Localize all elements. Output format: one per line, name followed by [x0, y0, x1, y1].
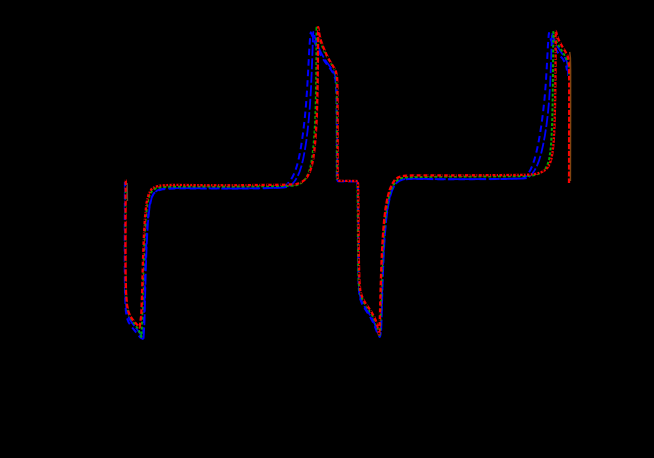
- artifact brown strand right of final fall: [569, 52, 572, 181]
- curve green dashed: [125, 26, 569, 337]
- curve blue dashed: [125, 32, 567, 339]
- curve blue solid: [125, 32, 568, 339]
- curve red dashed: [126, 27, 570, 335]
- artifact faint tan strand beside initial dip: [126, 183, 128, 201]
- curve black dashed (reference, nearly invisible on black): [125, 27, 569, 335]
